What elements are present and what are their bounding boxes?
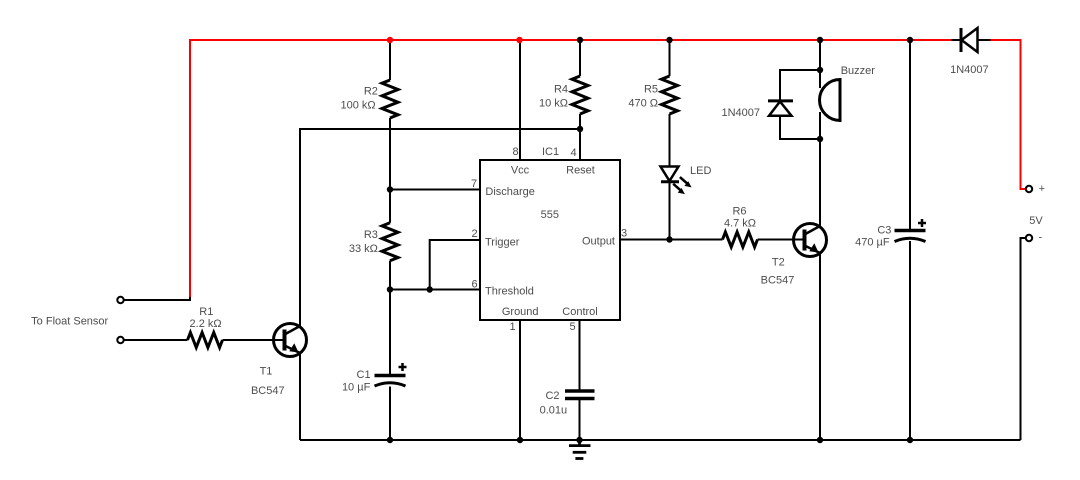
svg-text:R2: R2 bbox=[364, 85, 378, 97]
svg-text:470 Ω: 470 Ω bbox=[628, 98, 658, 110]
svg-text:R1: R1 bbox=[199, 306, 213, 318]
wire: R2 bottom to R3 top bbox=[389, 118, 391, 223]
wire: C1 bottom lead bbox=[389, 387, 391, 441]
node: terminal sensor top bbox=[117, 297, 123, 303]
capacitor C2 bbox=[565, 391, 595, 399]
wire: pin 7 discharge bbox=[390, 189, 480, 191]
svg-text:3: 3 bbox=[621, 228, 627, 240]
svg-text:Discharge: Discharge bbox=[485, 186, 535, 198]
wire: T1 emitter to ground rail bbox=[299, 353, 301, 440]
svg-text:Trigger: Trigger bbox=[485, 236, 520, 248]
svg-text:BC547: BC547 bbox=[761, 274, 795, 286]
capacitor C3 bbox=[895, 219, 927, 242]
node: junction pin1/rail bbox=[517, 437, 523, 443]
svg-text:-: - bbox=[1038, 232, 1042, 244]
svg-text:C2: C2 bbox=[545, 390, 559, 402]
svg-text:1: 1 bbox=[509, 321, 515, 333]
op-amp U1: 555 timer IC1 body bbox=[480, 160, 620, 320]
wire: T1 collector riser to reset node bbox=[300, 129, 580, 326]
node: terminal sensor bottom bbox=[117, 337, 123, 343]
svg-text:Vcc: Vcc bbox=[511, 165, 530, 177]
wire: R4 bottom to pin 4 reset bbox=[579, 114, 581, 160]
svg-text:LED: LED bbox=[690, 165, 711, 177]
svg-text:To Float Sensor: To Float Sensor bbox=[31, 315, 108, 327]
svg-text:555: 555 bbox=[541, 209, 559, 221]
svg-text:Output: Output bbox=[582, 236, 615, 248]
wire: R5 top lead from rail bbox=[669, 40, 671, 76]
svg-text:2: 2 bbox=[471, 228, 477, 240]
LED D2 bbox=[661, 167, 692, 195]
wire: pin 3 output to R6 bbox=[620, 239, 723, 241]
svg-text:IC1: IC1 bbox=[542, 146, 559, 158]
wire: flyback diode top branch bbox=[780, 70, 820, 101]
svg-text:1N4007: 1N4007 bbox=[950, 64, 989, 76]
svg-text:2.2 kΩ: 2.2 kΩ bbox=[190, 318, 222, 330]
svg-text:Buzzer: Buzzer bbox=[841, 65, 876, 77]
wire: LED cathode to output node bbox=[669, 182, 671, 240]
resistor R2 bbox=[382, 80, 398, 118]
svg-text:10 µF: 10 µF bbox=[342, 382, 371, 394]
svg-text:R6: R6 bbox=[732, 206, 746, 218]
wire: pin 5 control to C2 bbox=[579, 320, 581, 391]
node: junction buzzer bottom bbox=[817, 136, 823, 142]
resistor R5 bbox=[662, 76, 678, 114]
node: junction R3/C1/threshold bbox=[387, 286, 393, 292]
svg-text:33 kΩ: 33 kΩ bbox=[349, 243, 378, 255]
node: junction output/LED bbox=[666, 236, 672, 242]
svg-text:6: 6 bbox=[471, 278, 477, 290]
svg-text:5V: 5V bbox=[1029, 215, 1043, 227]
resistor R4 bbox=[572, 76, 588, 114]
node: junction R2/rail (red) bbox=[387, 37, 393, 43]
wire: flyback diode bottom branch bbox=[780, 116, 820, 139]
wire: R5 to LED anode bbox=[669, 114, 671, 167]
node: junction buzzer top bbox=[817, 67, 823, 73]
node: terminal 0V bbox=[1026, 235, 1032, 241]
wire: R3 bottom to C1 bbox=[389, 261, 391, 374]
resistor R6 bbox=[723, 232, 758, 247]
wire: C3 top lead from rail bbox=[909, 40, 911, 230]
svg-text:8: 8 bbox=[512, 146, 518, 158]
wire: ground bottom rail bbox=[300, 439, 1021, 441]
wire: C3 bottom lead bbox=[909, 241, 911, 440]
wire: +V red rail top (left section) bbox=[190, 40, 952, 299]
svg-text:T1: T1 bbox=[260, 366, 273, 378]
node: junction C1/rail bbox=[387, 437, 393, 443]
svg-text:470 µF: 470 µF bbox=[855, 237, 890, 249]
buzzer BZ1 bbox=[820, 80, 840, 121]
node: junction Vcc/rail (red) bbox=[516, 37, 522, 43]
wire: buzzer bottom to T2 collector bbox=[819, 112, 821, 226]
node: junction R5/rail bbox=[666, 37, 672, 43]
node: junction R2/pin7 bbox=[387, 186, 393, 192]
wire: pin 6 threshold bbox=[390, 289, 480, 291]
svg-text:0.01u: 0.01u bbox=[540, 405, 568, 417]
node: junction C3/rail bbox=[907, 37, 913, 43]
svg-text:C1: C1 bbox=[357, 369, 371, 381]
wire: R6 to T2 base bbox=[758, 239, 805, 241]
wire: R2 top lead from rail bbox=[389, 40, 391, 80]
svg-text:+: + bbox=[1039, 183, 1045, 195]
svg-text:BC547: BC547 bbox=[251, 385, 285, 397]
wire: T2 emitter to ground rail bbox=[819, 253, 821, 440]
transistor T2 bbox=[794, 224, 827, 257]
svg-text:7: 7 bbox=[471, 178, 477, 190]
node: junction R4/rail bbox=[577, 37, 583, 43]
svg-text:4: 4 bbox=[570, 147, 576, 159]
svg-text:Ground: Ground bbox=[502, 306, 539, 318]
wire: - terminal to ground rail bbox=[1021, 238, 1027, 440]
wire: C2 to ground rail bbox=[579, 399, 581, 446]
svg-text:100 kΩ: 100 kΩ bbox=[340, 100, 375, 112]
node: junction T2 emitter/rail bbox=[817, 437, 823, 443]
wire: pin 1 ground lead bbox=[519, 320, 521, 440]
svg-text:1N4007: 1N4007 bbox=[721, 107, 760, 119]
svg-text:T2: T2 bbox=[772, 256, 785, 268]
svg-text:R4: R4 bbox=[554, 84, 568, 96]
wire: float sensor top lead bbox=[124, 297, 190, 300]
svg-text:Control: Control bbox=[562, 306, 597, 318]
svg-text:10 kΩ: 10 kΩ bbox=[539, 98, 568, 110]
svg-text:C3: C3 bbox=[877, 224, 891, 236]
wire: +V red rail right section to + terminal bbox=[991, 40, 1027, 189]
wire: R4 top lead from rail bbox=[579, 40, 581, 76]
wire: D1 cathode lead bbox=[952, 39, 962, 41]
ground bbox=[569, 440, 591, 459]
node: junction buzzer/rail bbox=[817, 37, 823, 43]
transistor T1 bbox=[274, 324, 307, 357]
node: junction trigger/threshold bbox=[427, 286, 433, 292]
svg-text:5: 5 bbox=[569, 321, 575, 333]
capacitor C1 bbox=[375, 363, 407, 386]
wire: pin 2 trigger bbox=[430, 240, 480, 290]
resistor R1 bbox=[188, 333, 223, 348]
wire: float sensor bottom lead to R1 bbox=[124, 339, 188, 341]
svg-text:Threshold: Threshold bbox=[485, 286, 534, 298]
svg-text:R5: R5 bbox=[644, 84, 658, 96]
svg-text:4.7 kΩ: 4.7 kΩ bbox=[724, 218, 756, 230]
svg-text:R3: R3 bbox=[364, 229, 378, 241]
wire: rail to buzzer top bbox=[819, 40, 821, 88]
node: junction R4/reset/collector bbox=[577, 126, 583, 132]
wire: R1 to T1 base bbox=[223, 339, 285, 341]
wire: pin 8 Vcc to rail bbox=[519, 40, 521, 160]
wire: D1 anode lead bbox=[978, 39, 991, 41]
diode D3 flyback 1N4007 bbox=[768, 101, 793, 116]
resistor R3 bbox=[382, 223, 398, 261]
node: junction C3/rail bottom bbox=[907, 437, 913, 443]
node: junction C2/ground/rail bbox=[576, 437, 582, 443]
node: terminal +5V bbox=[1026, 186, 1032, 192]
svg-text:Reset: Reset bbox=[566, 165, 595, 177]
diode D1 1N4007 series bbox=[961, 28, 978, 52]
